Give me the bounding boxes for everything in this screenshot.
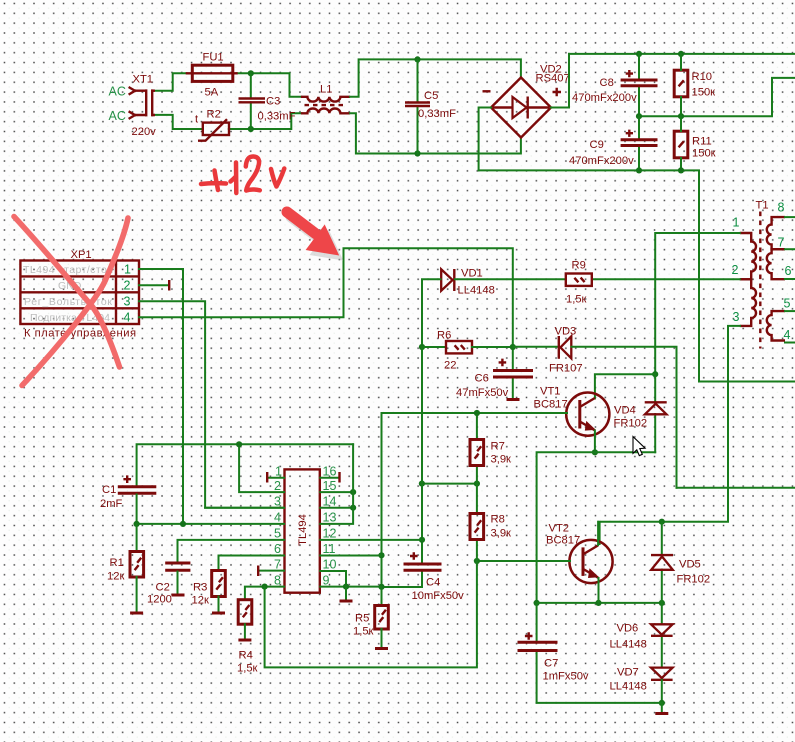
svg-text:12к: 12к [192,595,209,607]
wire VT1 base [382,412,568,414]
wire C6 bottom lead to ground [512,378,514,399]
wire pin16 stub [320,477,338,479]
wire R6 right lead to C6 node [472,346,513,348]
svg-text:3: 3 [274,494,281,508]
svg-text:LL4148: LL4148 [610,681,647,693]
wire C7 branch [537,603,662,703]
svg-text:8: 8 [274,573,281,587]
wire pin7 stub [260,570,285,572]
svg-text:К плате управления: К плате управления [24,328,136,340]
svg-text:12: 12 [323,527,337,541]
node 0V rail R11 junction [678,167,684,173]
wire right rail output [677,487,795,489]
wire top bus to C1 [137,444,354,485]
node VD5 top junction [659,519,665,525]
svg-text:2mF: 2mF [100,498,123,510]
transformer T1 core dashed line [759,212,761,349]
wire R5 bottom lead [381,629,383,647]
svg-text:R9: R9 [572,260,586,272]
svg-text:10: 10 [323,558,337,572]
terminal bar pin1 [266,472,268,483]
wire pin13 to right bus [320,444,353,524]
wire +310V top rail [569,53,795,55]
svg-text:3,9к: 3,9к [491,528,512,540]
svg-text:C5: C5 [424,90,438,102]
resistor R7 [470,440,484,466]
svg-text:T1: T1 [756,200,769,212]
connector XT1 [129,87,155,119]
node supply descender junction at R7 [419,481,425,487]
node C1 R1 junction [134,521,140,527]
annotation handwritten v [271,169,284,187]
wire pin8 loop to VT2 base node [265,561,477,667]
svg-text:VD4: VD4 [614,405,636,417]
wire VT2 emitter [598,578,600,603]
capacitor C3 [239,99,266,103]
svg-text:7: 7 [778,236,785,250]
label plus of C1 [123,475,131,483]
wire FU1 output to C3 top junction and to L1 riser [237,73,302,97]
resistor R10 [674,70,688,97]
svg-text:1,5к: 1,5к [566,294,587,306]
wire R8 leads [476,484,478,561]
wire emitter bus y603 [537,602,662,604]
svg-text:R5: R5 [355,613,369,625]
svg-text:11: 11 [323,542,336,556]
svg-text:R3: R3 [193,582,207,594]
wire R3 bottom lead [218,597,220,612]
svg-text:1200: 1200 [147,594,172,606]
svg-text:4: 4 [124,311,131,325]
svg-text:R10: R10 [692,71,713,83]
wire capacitor C3 lead bottom [250,103,252,129]
svg-text:C2: C2 [156,582,170,594]
wire VD1 cathode to R9 [455,278,566,280]
annotation red arrow shadow [291,217,343,261]
svg-text:4: 4 [784,328,791,342]
node pin12 C4 junction [419,537,425,543]
wire C1 bottom to pin4 node [136,495,138,524]
ground bar under R5 [375,647,388,650]
wire pin1 stub [268,477,284,479]
svg-text:AC: AC [109,85,126,99]
resistor R4 [238,600,252,625]
wire T1 pin 5 [785,310,795,312]
wire XP1 row4 +12v feed to C6 [139,248,513,370]
svg-text:AC: AC [109,109,126,123]
svg-text:R7: R7 [491,441,505,453]
svg-text:7: 7 [274,557,281,571]
wire R10 bottom lead [680,97,682,116]
wire pin9 ground stub [345,587,347,600]
svg-text:1: 1 [733,216,740,230]
svg-text:C4: C4 [426,577,440,589]
svg-text:VD1: VD1 [461,268,483,280]
wire R1 bottom lead [136,577,138,612]
svg-text:9: 9 [323,573,330,587]
annotation handwritten +12v plus [201,171,226,191]
annotation red arrow [287,212,339,256]
transistor VT2 [569,540,612,583]
svg-text:VD3: VD3 [555,326,577,338]
svg-text:4: 4 [274,511,281,525]
svg-text:XP1: XP1 [71,249,92,261]
mouse cursor [633,437,645,456]
svg-text:5A: 5A [205,87,219,99]
svg-text:6: 6 [785,264,792,278]
resistor R5 [375,606,389,630]
svg-text:R1: R1 [110,557,124,569]
svg-text:150к: 150к [692,148,716,160]
svg-text:LL4148: LL4148 [458,285,495,297]
wire pin8 to R4 [245,587,284,600]
svg-text:LL4148: LL4148 [610,639,647,651]
node C6 top junction [510,344,516,350]
svg-text:12к: 12к [107,571,124,583]
wire VD3 anode to right descender [572,347,677,488]
resistor R1 [130,552,144,578]
svg-text:6: 6 [274,542,281,556]
node R6 left junction [419,344,425,350]
ground bar under C2 [172,594,185,597]
wire supply descender from VD1 through R6 node to C4 [382,347,423,587]
svg-text:VD6: VD6 [617,623,639,635]
diode VD1 [441,269,454,291]
wire pin15 stub [320,491,353,493]
node pin14 junction [350,505,356,511]
svg-text:0,33mF: 0,33mF [418,108,456,120]
node C3 top junction [248,70,254,76]
svg-text:16: 16 [323,465,337,479]
capacitor C7 [518,642,558,650]
transformer T1 secondary top winding pins 8 7 6 [767,217,785,279]
wire C2 bottom lead [177,572,179,594]
wire AC input top from XT1 to FU1 [154,73,187,90]
svg-text:BC817: BC817 [546,535,580,547]
node pin4 row1 junction [180,521,186,527]
capacitor C8 [621,80,658,86]
diode VD3 [559,336,572,359]
wire pin4 line [137,523,284,525]
wire T1 pin 7 [785,248,795,250]
node C5 bottom junction [414,150,420,156]
node C9 top junction [636,113,642,119]
resistor R3 [212,571,226,597]
wire VT2 collector [597,522,599,545]
svg-text:L1: L1 [320,84,332,96]
wire VD4 leads [654,374,656,452]
svg-text:0,33mF: 0,33mF [258,111,296,123]
wire capacitor C9 leads [638,116,640,170]
resistor R9 [566,274,592,286]
terminal bar pin7 [257,566,259,577]
wire pin6 to R3 [219,556,285,571]
wire pin12 to C4 node [320,539,422,541]
resistor R6 [446,341,472,353]
wire T1 pin 8 [785,216,795,218]
wire capacitor C8 leads [638,54,640,116]
ground bar under R1 [130,612,143,615]
wire T1 pin 6 [785,278,795,280]
capacitor C9 [621,140,658,146]
node C7 top junction [534,600,540,606]
svg-text:13: 13 [323,511,337,525]
wire VD2 minus output to 0V rail [479,108,491,171]
wire VD6 leads [661,603,663,667]
svg-text:VD7: VD7 [617,667,639,679]
resistor R11 [674,131,688,158]
svg-text:3: 3 [733,310,740,324]
wire midpoint rail between C8 C9 [639,78,795,116]
annotation handwritten 1 [231,163,237,194]
wire bottom node stub to ground [661,703,663,712]
wire pin11 to x381 [320,555,381,557]
terminal bar XP1 row2 [168,280,170,291]
wire VT2 base [477,560,570,562]
wire R2 to C3 bottom and L1 bottom riser [229,113,302,129]
wire R7 leads [476,413,478,484]
wire VT1 emitter to common node [594,431,596,453]
wire T1 pin 1 to VD4 node [655,233,740,374]
node R7 top junction [474,410,480,416]
wire R6 left lead [422,346,446,348]
wire C6 node to VD3 [513,346,558,348]
label plus of C4 [410,552,418,560]
svg-text:470mFx200v: 470mFx200v [569,155,634,167]
node pin15 junction [350,489,356,495]
svg-text:Рег_Вольты_ток: Рег_Вольты_ток [24,296,112,308]
svg-text:150к: 150к [692,87,716,99]
transistor VT1 [566,393,609,436]
wire XP1 row3 to TL494 pin3 [139,301,284,508]
connector XP1 table [20,261,139,325]
diode VD4 [645,402,667,414]
svg-text:10mFx50v: 10mFx50v [412,590,465,602]
terminal bar pin16 [338,472,340,483]
wire emitter bus y452 [537,452,656,603]
svg-text:2: 2 [732,263,739,277]
wire R4 bottom lead [244,624,246,638]
capacitor C6 [493,371,533,378]
wire R7 R8 divider node [422,483,477,485]
svg-text:FR102: FR102 [677,574,711,586]
transformer T1 secondary bottom winding pins 5 4 [767,311,785,340]
svg-text:220v: 220v [132,126,157,138]
node VD4 top junction [652,371,658,377]
svg-text:2: 2 [124,279,131,293]
svg-text:C7: C7 [544,658,558,670]
wire T1 pin 2 to R9 [592,278,740,280]
wire pin5 to C2 [178,540,285,562]
wire XP1 row2 stub [139,284,168,286]
capacitor C5 [405,103,430,107]
ground bar under R3 [212,612,225,615]
svg-text:15: 15 [323,479,337,493]
wire R11 bottom lead [680,158,682,170]
svg-text:RS407: RS407 [536,73,570,85]
svg-text:47mFx50v: 47mFx50v [456,387,509,399]
fuse FU1 [186,65,238,81]
svg-text:C6: C6 [475,373,489,385]
wire AC input bottom from XT1 to R2 [154,115,203,129]
IC U1 TL494 body [285,469,320,592]
diode VD5 [651,555,673,570]
wire base feed descender x381 [381,413,383,587]
node R5 top junction [378,584,384,590]
svg-text:14: 14 [323,494,337,508]
svg-text:BC817: BC817 [534,399,568,411]
svg-text:R8: R8 [491,514,505,526]
svg-text:3: 3 [124,295,131,309]
svg-text:2: 2 [274,479,281,493]
inductor L1 common-mode choke [301,97,350,114]
node pin8 junction [262,584,268,590]
label plus of C9 [626,130,633,137]
svg-text:5: 5 [784,297,791,311]
svg-text:3,9к: 3,9к [491,454,512,466]
wire pin10 down to pin9 node [320,571,346,587]
wire T1 pin 4 [785,342,795,344]
diode VD7 [651,668,673,680]
node bottom common junction [659,700,665,706]
transformer T1 primary winding pins 1 2 3 [740,233,756,326]
wire VD2 plus output riser [551,54,569,108]
label plus of C6 [499,359,507,367]
wire VD5 leads [661,522,663,603]
node R11 top junction [678,113,684,119]
node C8 top junction [636,51,642,57]
wire pin14 stub [320,507,353,509]
node pin9 ground junction [343,584,349,590]
node VT2 emitter junction [595,600,601,606]
node 0V rail C9 junction [636,167,642,173]
wire VT1 collector branch [595,374,655,398]
ground bar pins 9 10 [340,600,353,603]
svg-text:R2: R2 [207,109,221,121]
wire capacitor C5 leads [417,59,419,153]
wire VD7 cathode to bottom node [661,680,663,703]
capacitor C1 [118,487,157,494]
svg-text:C3: C3 [266,96,280,108]
wire R1 top lead [136,524,138,552]
node pin11 junction [378,552,384,558]
svg-text:5: 5 [274,527,281,541]
svg-text:22: 22 [444,360,456,372]
wire R10 top lead [680,54,682,70]
svg-text:C9: C9 [590,139,604,151]
wire XP1 row1 to TL494 pin4 wire [139,269,183,524]
capacitor C4 [404,564,442,570]
svg-text:VD5: VD5 [679,559,701,571]
svg-text:FR102: FR102 [614,418,648,430]
ground bar below VD7 [655,712,668,715]
wire VD1 anode to supply descender [422,279,441,347]
svg-text:FU1: FU1 [203,52,224,64]
node R10 top junction [678,51,684,57]
label plus of C8 [626,70,633,77]
svg-text:XT1: XT1 [133,74,154,86]
bridge rectifier VD2 [491,78,551,138]
node C3 bottom junction [248,126,254,132]
wire pin2 to top bus [239,444,284,492]
annotation handwritten 2 [246,156,260,190]
wire 0V rail under C9 R11 [479,170,795,381]
node R7 bottom junction [474,481,480,487]
wire L1 bottom output to bottom AC rail of bridge [350,113,521,153]
svg-text:VT1: VT1 [540,386,561,398]
node VD5 anode junction [659,600,665,606]
resistor R8 [470,514,484,540]
wire R11 top lead [680,116,682,131]
svg-text:TL494: TL494 [297,514,309,546]
wire capacitor C3 lead top [250,73,252,97]
label minus of VD2 [483,90,491,92]
wire L1 top output to top AC rail of bridge [350,59,521,96]
wire pin9 bus to C4 bottom [320,586,381,588]
annotation red X over XP1 [14,217,128,386]
diode VD6 [651,624,673,636]
svg-text:R11: R11 [692,136,712,148]
svg-text:1,5к: 1,5к [353,626,374,638]
svg-text:8: 8 [778,201,785,215]
svg-text:VT2: VT2 [549,523,570,535]
svg-text:FR107: FR107 [549,363,583,375]
wire pin3 stub [205,507,284,509]
node VT2 base junction [474,558,480,564]
node top bus pin2 junction [236,441,242,447]
svg-text:470mFx200v: 470mFx200v [572,92,637,104]
svg-text:1mFx50v: 1mFx50v [543,671,589,683]
ground bar under R4 [238,639,251,642]
svg-text:1: 1 [275,465,282,479]
label plus of C7 [525,632,533,640]
svg-text:R6: R6 [437,330,451,342]
svg-text:R4: R4 [239,650,253,662]
node VT1 emitter junction [592,449,598,455]
svg-text:1,5к: 1,5к [237,663,258,675]
svg-text:1: 1 [124,263,131,277]
wire T1 pin 3 descender to VT2 collector [600,326,740,544]
capacitor C2 [165,563,190,570]
svg-text:C1: C1 [102,484,116,496]
varistor R2 [198,119,229,141]
node C5 top junction [414,56,420,62]
ground bar under C6 [507,398,520,401]
label plus of VD2 [553,88,562,96]
svg-text:C8: C8 [600,77,614,89]
wire R5 top lead [381,587,383,606]
